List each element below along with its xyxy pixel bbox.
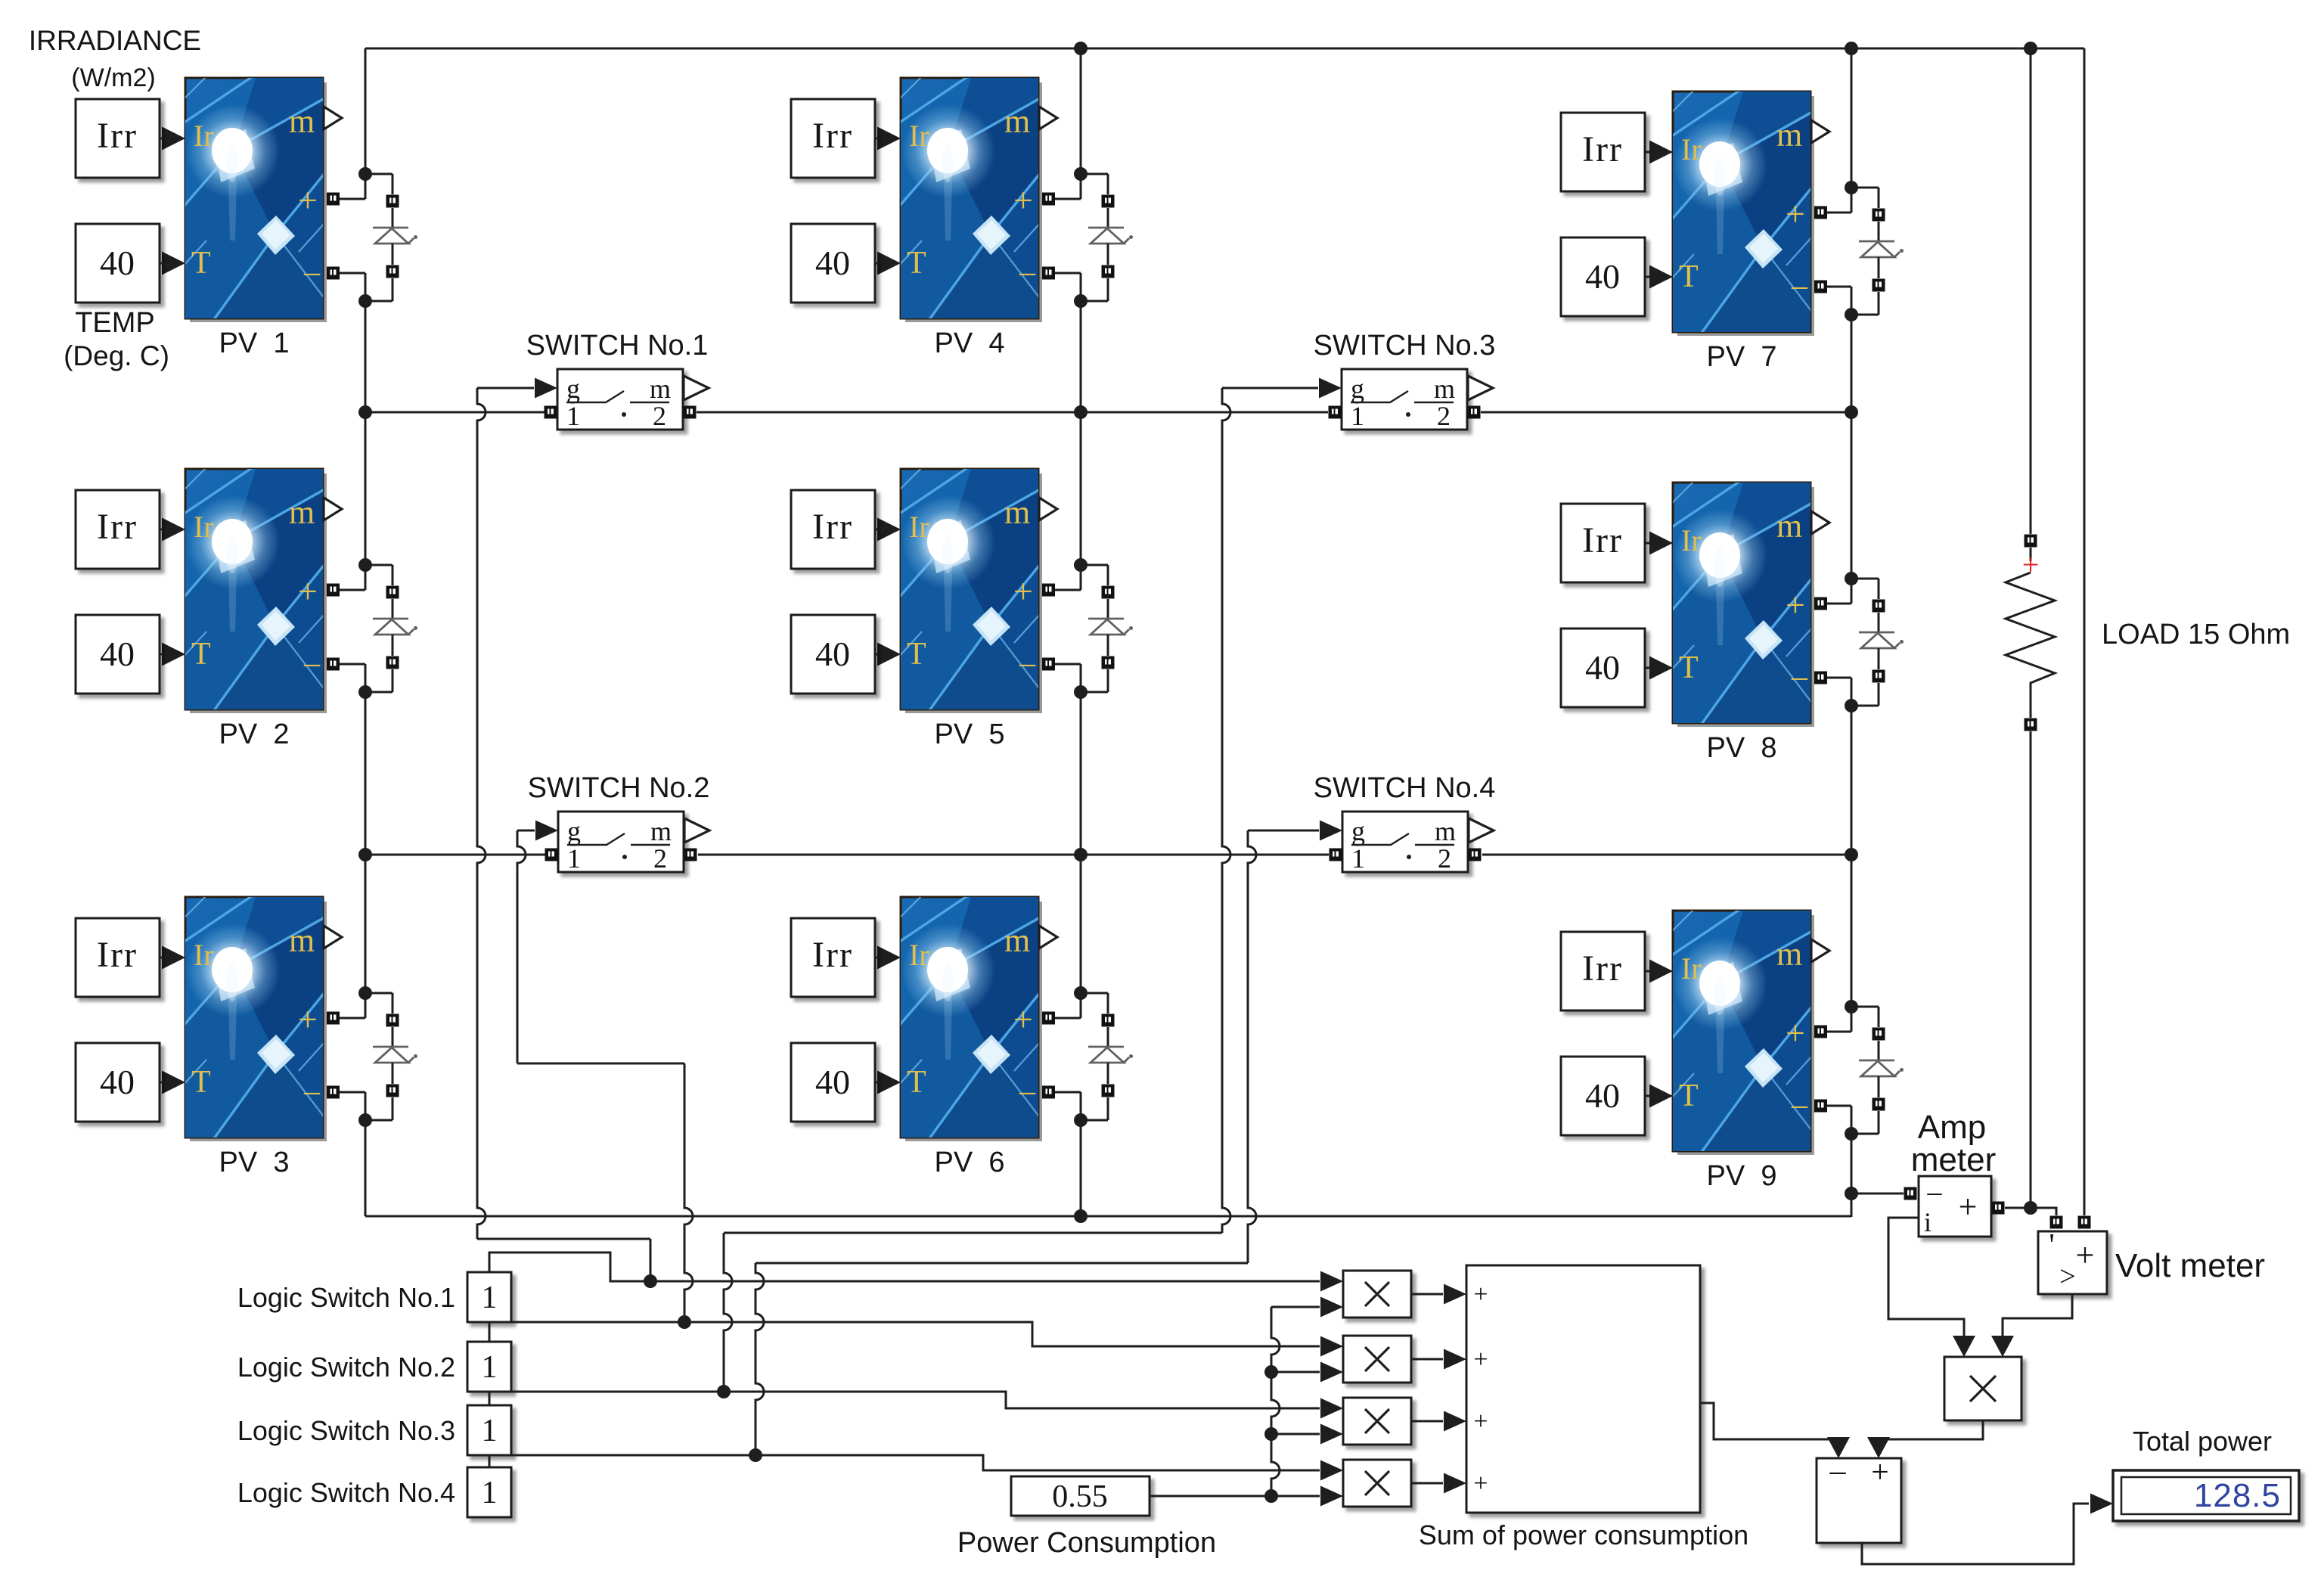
svg-text:Irr: Irr xyxy=(812,116,853,156)
svg-text:1: 1 xyxy=(482,1476,498,1510)
svg-text:Irr: Irr xyxy=(812,935,853,975)
svg-text:PV 2: PV 2 xyxy=(219,719,290,750)
svg-text:Volt meter: Volt meter xyxy=(2115,1247,2265,1284)
svg-text:Irr: Irr xyxy=(97,507,138,547)
svg-text:–: – xyxy=(1927,1176,1943,1208)
svg-text:PV 1: PV 1 xyxy=(219,327,290,359)
svg-text:TEMP: TEMP xyxy=(75,307,155,339)
svg-text:PV 9: PV 9 xyxy=(1707,1160,1777,1192)
svg-text:Irr: Irr xyxy=(97,116,138,156)
svg-text:SWITCH No.2: SWITCH No.2 xyxy=(528,772,710,804)
svg-text:40: 40 xyxy=(100,635,135,673)
svg-text:40: 40 xyxy=(815,635,850,673)
svg-text:PV 5: PV 5 xyxy=(935,719,1005,750)
svg-text:2: 2 xyxy=(1438,843,1451,874)
svg-text:Sum of power consumption: Sum of power consumption xyxy=(1419,1519,1748,1550)
svg-text:SWITCH No.1: SWITCH No.1 xyxy=(526,330,709,362)
svg-text:+: + xyxy=(1473,1408,1488,1436)
svg-text:PV 4: PV 4 xyxy=(935,327,1005,359)
svg-text:PV 8: PV 8 xyxy=(1707,732,1777,764)
svg-text:Irr: Irr xyxy=(1582,129,1623,169)
svg-text:g: g xyxy=(567,816,581,846)
svg-text:meter: meter xyxy=(1911,1141,1996,1178)
svg-text:SWITCH No.4: SWITCH No.4 xyxy=(1314,772,1496,804)
svg-text:+: + xyxy=(2022,548,2040,582)
svg-text:128.5: 128.5 xyxy=(2194,1477,2281,1514)
svg-text:Logic Switch No.3: Logic Switch No.3 xyxy=(237,1415,455,1446)
svg-text:1: 1 xyxy=(482,1280,498,1315)
svg-text:Total power: Total power xyxy=(2133,1426,2272,1457)
svg-text:40: 40 xyxy=(1585,648,1620,687)
svg-text:40: 40 xyxy=(815,1063,850,1101)
svg-text:1: 1 xyxy=(1351,401,1364,431)
svg-text:>: > xyxy=(2059,1261,2075,1293)
svg-text:Amp: Amp xyxy=(1918,1109,1986,1146)
svg-text:SWITCH No.3: SWITCH No.3 xyxy=(1314,330,1496,362)
svg-text:Logic Switch No.4: Logic Switch No.4 xyxy=(237,1477,455,1508)
svg-text:+: + xyxy=(1473,1470,1488,1498)
svg-text:+: + xyxy=(2076,1237,2095,1274)
svg-text:1: 1 xyxy=(1351,843,1365,874)
svg-text:g: g xyxy=(566,374,580,404)
svg-text:+: + xyxy=(1473,1280,1488,1308)
svg-text:–: – xyxy=(1829,1454,1847,1488)
svg-text:g: g xyxy=(1351,374,1364,404)
svg-text:LOAD 15 Ohm: LOAD 15 Ohm xyxy=(2102,619,2290,650)
svg-text:PV 3: PV 3 xyxy=(219,1147,290,1178)
svg-text:1: 1 xyxy=(482,1350,498,1385)
svg-text:m: m xyxy=(1434,374,1455,404)
svg-text:Irr: Irr xyxy=(1582,520,1623,560)
svg-text:2: 2 xyxy=(653,843,667,874)
svg-text:1: 1 xyxy=(566,401,580,431)
svg-text:PV 7: PV 7 xyxy=(1707,341,1777,373)
svg-text:Logic Switch No.2: Logic Switch No.2 xyxy=(237,1352,455,1383)
svg-text:PV 6: PV 6 xyxy=(935,1147,1005,1178)
svg-text:1: 1 xyxy=(567,843,581,874)
svg-text:+: + xyxy=(1959,1188,1978,1225)
svg-text:Irr: Irr xyxy=(1582,948,1623,989)
svg-text:+: + xyxy=(1473,1346,1488,1373)
svg-text:1: 1 xyxy=(482,1414,498,1448)
svg-text:': ' xyxy=(2049,1228,2055,1263)
svg-text:m: m xyxy=(1435,816,1456,846)
svg-text:g: g xyxy=(1351,816,1365,846)
svg-text:40: 40 xyxy=(100,1063,135,1101)
svg-text:Power Consumption: Power Consumption xyxy=(957,1527,1216,1559)
svg-text:m: m xyxy=(650,374,671,404)
svg-text:(W/m2): (W/m2) xyxy=(71,64,155,92)
svg-text:2: 2 xyxy=(1437,401,1451,431)
svg-text:Irr: Irr xyxy=(97,935,138,975)
svg-text:40: 40 xyxy=(100,244,135,282)
svg-text:Logic Switch No.1: Logic Switch No.1 xyxy=(237,1282,455,1313)
svg-text:40: 40 xyxy=(1585,1076,1620,1115)
svg-text:2: 2 xyxy=(653,401,666,431)
svg-text:(Deg. C): (Deg. C) xyxy=(64,340,169,371)
svg-text:IRRADIANCE: IRRADIANCE xyxy=(29,25,201,56)
svg-text:40: 40 xyxy=(815,244,850,282)
svg-text:i: i xyxy=(1924,1207,1931,1237)
svg-text:+: + xyxy=(1871,1455,1889,1490)
svg-text:0.55: 0.55 xyxy=(1052,1479,1108,1514)
svg-text:Irr: Irr xyxy=(812,507,853,547)
svg-text:m: m xyxy=(650,816,672,846)
svg-text:40: 40 xyxy=(1585,257,1620,296)
